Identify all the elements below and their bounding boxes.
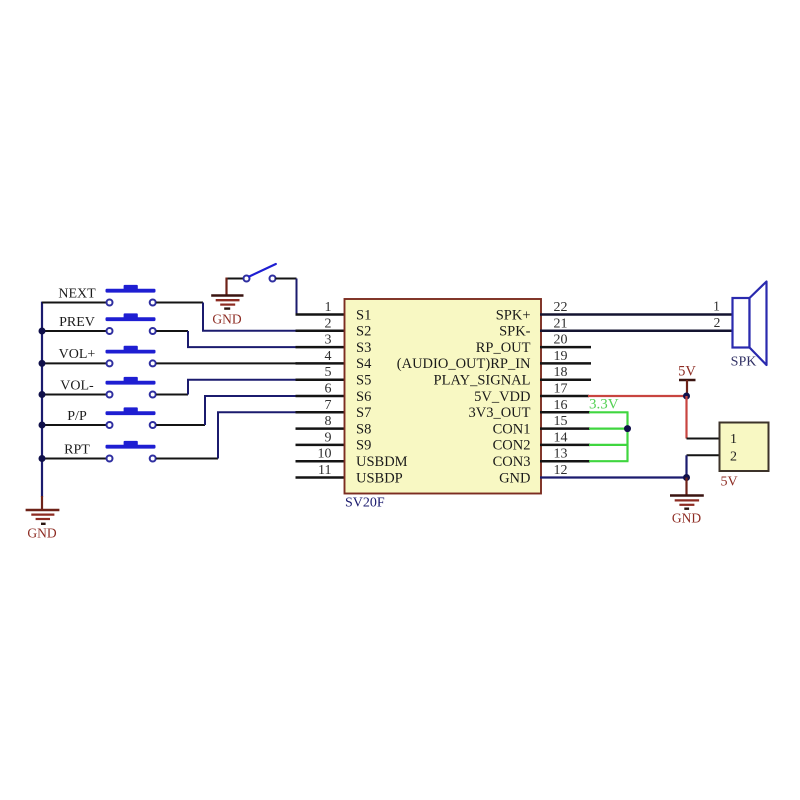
wire pin 14 stub: [540, 444, 590, 447]
wire P/P vertical jog: [204, 396, 206, 425]
svg-text:CON2: CON2: [493, 438, 531, 454]
switch SW1: [244, 264, 276, 282]
wire pin 8 stub: [296, 427, 346, 430]
wire bus to VOL+ button: [42, 362, 107, 364]
svg-text:GND: GND: [27, 526, 56, 541]
svg-text:S2: S2: [356, 324, 371, 340]
svg-text:2: 2: [730, 449, 737, 464]
wire GND bus lower segment: [41, 496, 43, 510]
svg-text:20: 20: [554, 333, 568, 348]
svg-text:VOL+: VOL+: [59, 347, 96, 362]
svg-text:17: 17: [554, 382, 568, 397]
push-button RPT: [106, 441, 156, 462]
wire connector pin2 lead: [687, 454, 721, 456]
wire pin 5 stub: [296, 378, 346, 381]
svg-text:15: 15: [554, 414, 568, 429]
svg-text:S9: S9: [356, 438, 371, 454]
svg-text:GND: GND: [672, 511, 701, 526]
ground G3 (right): [670, 496, 704, 526]
wire GND bus vertical: [41, 302, 43, 497]
svg-text:5V: 5V: [678, 364, 696, 380]
svg-text:7: 7: [325, 398, 332, 413]
svg-text:11: 11: [318, 463, 331, 478]
node junction bus/P/P: [39, 422, 46, 429]
wire SPK- run: [540, 330, 733, 333]
wire pin 1 stub: [296, 313, 346, 316]
wire PREV vertical jog: [187, 331, 189, 347]
node junction bus/PREV: [39, 328, 46, 335]
svg-text:GND: GND: [212, 312, 241, 327]
wire 3.3V net pin 15: [589, 428, 629, 430]
svg-text:S6: S6: [356, 389, 371, 405]
wire VOL- run to IC: [187, 379, 297, 381]
svg-text:CON3: CON3: [493, 454, 531, 470]
wire VOL- vertical jog: [187, 380, 189, 395]
wire pin 17 stub: [540, 395, 589, 398]
svg-text:1: 1: [730, 432, 737, 447]
wire P/P run to IC: [204, 395, 297, 397]
svg-text:S5: S5: [356, 373, 371, 389]
push-button P/P: [106, 407, 156, 428]
wire 5V net horizontal: [588, 395, 687, 397]
wire pin 9 stub: [296, 444, 346, 447]
push-button VOL+: [106, 346, 156, 367]
wire bus to PREV button: [42, 330, 107, 332]
svg-text:19: 19: [554, 349, 568, 364]
svg-text:12: 12: [554, 463, 568, 478]
wire pin 3 stub: [296, 346, 346, 349]
svg-text:6: 6: [325, 382, 332, 397]
wire pin 10 stub: [296, 460, 346, 463]
wire VOL+ to S4: [156, 362, 296, 364]
wire pin 18 stub: [540, 378, 591, 381]
push-button NEXT: [106, 285, 156, 306]
svg-text:SV20F: SV20F: [345, 496, 385, 511]
svg-text:22: 22: [554, 300, 568, 315]
ground G2 (switch): [211, 296, 243, 327]
svg-text:5V: 5V: [721, 475, 738, 490]
wire bus to P/P button: [42, 424, 107, 426]
svg-text:16: 16: [554, 398, 568, 413]
svg-text:3V3_OUT: 3V3_OUT: [468, 405, 530, 421]
wire bus to RPT button: [42, 458, 107, 460]
op-amp U1 SV20F body: [345, 299, 542, 494]
svg-text:RPT: RPT: [64, 442, 90, 457]
svg-text:13: 13: [554, 447, 568, 462]
wire PREV run to IC: [187, 346, 297, 348]
svg-text:RP_OUT: RP_OUT: [476, 340, 531, 356]
svg-text:SPK: SPK: [731, 355, 757, 370]
svg-text:CON1: CON1: [493, 421, 531, 437]
svg-text:5: 5: [325, 365, 332, 380]
svg-text:PREV: PREV: [59, 315, 95, 330]
svg-text:1: 1: [325, 300, 332, 315]
wire GND stub down: [685, 478, 687, 496]
svg-text:S7: S7: [356, 405, 371, 421]
wire VOL- stub right: [156, 394, 188, 396]
wire RPT vertical jog: [217, 412, 219, 458]
wire pin 16 stub: [540, 411, 590, 414]
svg-text:14: 14: [554, 430, 568, 445]
svg-text:SPK-: SPK-: [499, 324, 531, 340]
svg-text:3.3V: 3.3V: [589, 397, 619, 413]
wire PREV stub right: [156, 330, 188, 332]
node junction 5V: [683, 393, 690, 400]
wire RPT stub right: [156, 458, 218, 460]
wire bus to VOL- button: [42, 394, 107, 396]
wire pin 19 stub: [540, 362, 591, 365]
wire pin 4 stub: [296, 362, 346, 365]
svg-text:18: 18: [554, 365, 568, 380]
wire pin 7 stub: [296, 411, 346, 414]
svg-text:2: 2: [325, 316, 332, 331]
wire pin 13 stub: [540, 460, 590, 463]
wire connector pin2 down to GND: [685, 455, 687, 477]
svg-text:GND: GND: [499, 470, 530, 486]
ground G1 (left bus): [26, 510, 60, 541]
node junction bus/RPT: [39, 455, 46, 462]
wire RPT run to IC: [217, 411, 297, 413]
svg-text:21: 21: [554, 316, 568, 331]
wire connector pin1 lead: [687, 438, 721, 440]
svg-text:4: 4: [325, 349, 332, 364]
svg-text:P/P: P/P: [67, 409, 87, 424]
wire switch right lead: [275, 278, 296, 280]
wire NEXT run to IC: [202, 330, 297, 332]
svg-text:3: 3: [325, 333, 332, 348]
svg-text:NEXT: NEXT: [58, 286, 96, 301]
svg-text:8: 8: [325, 414, 332, 429]
svg-text:S8: S8: [356, 421, 371, 437]
svg-text:1: 1: [713, 299, 720, 314]
connector J1 body: [720, 423, 769, 472]
wire pin 11 stub: [296, 476, 346, 479]
push-button PREV: [106, 313, 156, 334]
svg-text:S3: S3: [356, 340, 371, 356]
wire SPK+ run: [540, 313, 733, 316]
svg-text:VOL-: VOL-: [60, 378, 94, 393]
svg-text:PLAY_SIGNAL: PLAY_SIGNAL: [434, 373, 531, 389]
wire 3.3V net pin 13: [589, 460, 629, 462]
svg-text:S4: S4: [356, 356, 372, 372]
wire P/P stub right: [156, 424, 205, 426]
svg-text:USBDP: USBDP: [356, 470, 403, 486]
wire bus to NEXT button: [42, 302, 107, 304]
speaker SPK: [731, 282, 767, 370]
node junction 3.3V/CON1: [624, 425, 631, 432]
wire pin 15 stub: [540, 427, 590, 430]
push-button VOL-: [106, 377, 156, 398]
wire pin 20 stub: [540, 346, 591, 349]
node junction GND/connector: [683, 474, 690, 481]
svg-text:9: 9: [325, 430, 332, 445]
wire 5V down to connector pin1: [685, 396, 687, 439]
wire switch down to S1: [296, 279, 298, 315]
wire 3.3V net pin 14: [589, 444, 629, 446]
svg-text:5V_VDD: 5V_VDD: [474, 389, 530, 405]
node junction bus/VOL-: [39, 391, 46, 398]
svg-text:(AUDIO_OUT)RP_IN: (AUDIO_OUT)RP_IN: [397, 356, 531, 372]
wire NEXT vertical jog: [202, 303, 204, 331]
svg-text:SPK+: SPK+: [496, 307, 531, 323]
svg-text:S1: S1: [356, 307, 371, 323]
svg-text:2: 2: [714, 315, 721, 330]
wire pin 6 stub: [296, 395, 346, 398]
wire pin 2 stub: [296, 330, 346, 333]
svg-text:10: 10: [318, 447, 332, 462]
wire switch left lead: [227, 278, 244, 280]
wire switch to ground: [225, 278, 227, 296]
node junction bus/VOL+: [39, 360, 46, 367]
wire 3.3V net pin 16: [589, 411, 629, 413]
wire NEXT stub right: [156, 302, 203, 304]
wire 3.3V net vertical: [626, 412, 628, 461]
svg-text:USBDM: USBDM: [356, 454, 408, 470]
wire GND net run: [540, 476, 687, 478]
power 5V: [678, 364, 696, 397]
